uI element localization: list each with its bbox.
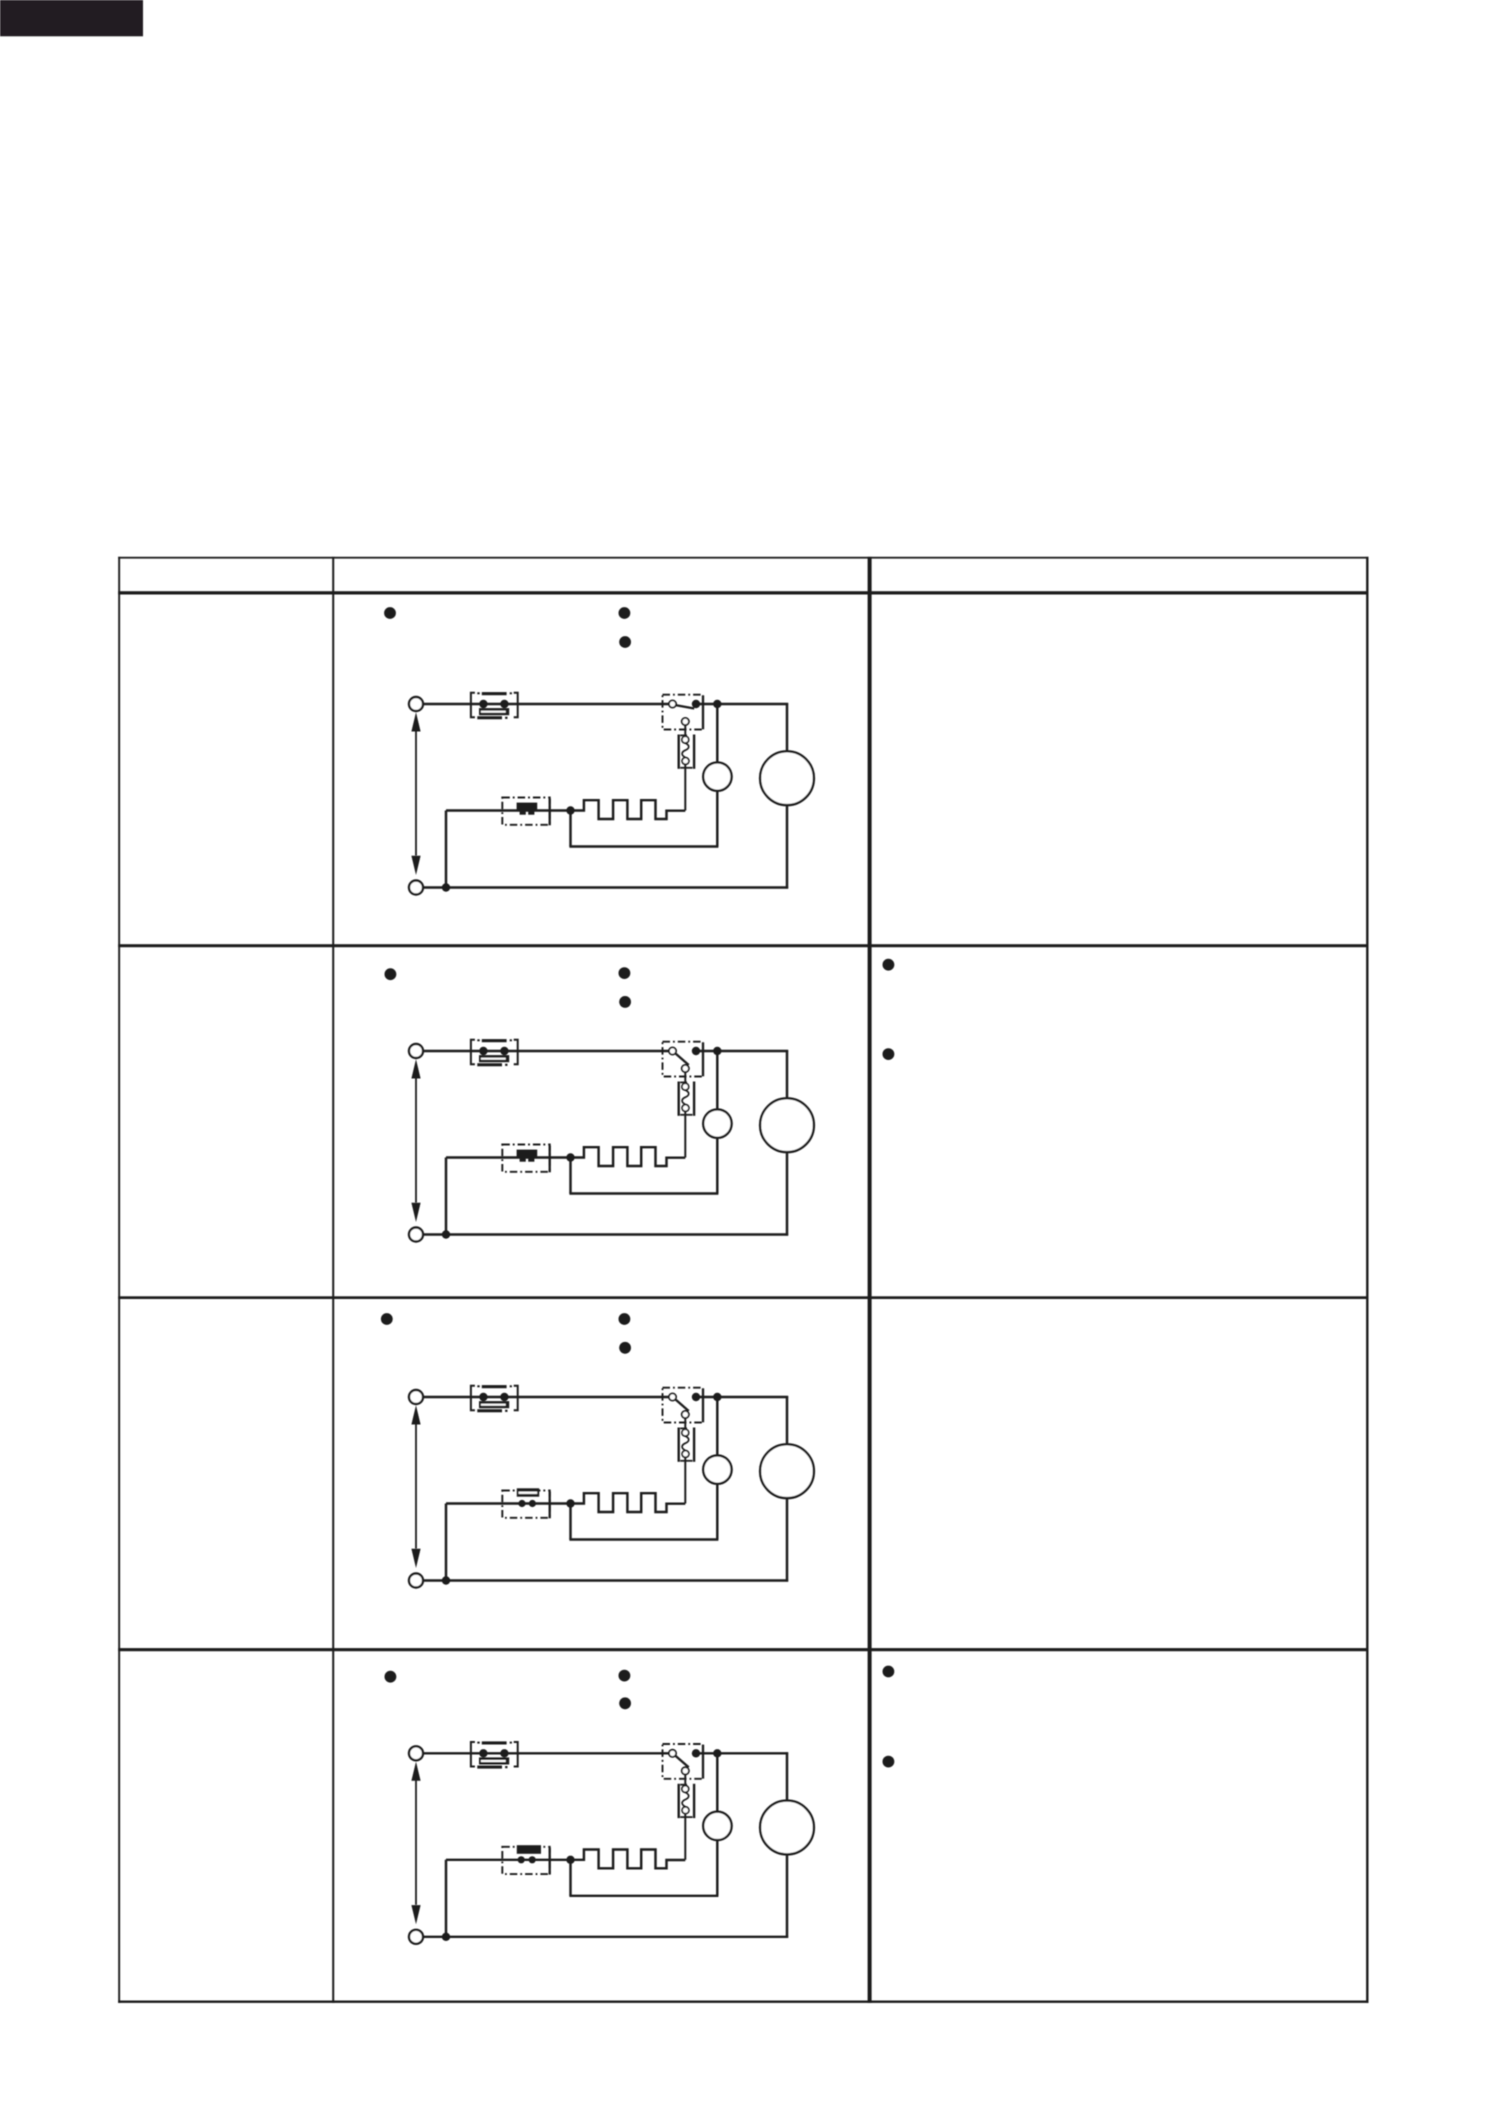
bullet marker bbox=[381, 1313, 393, 1325]
junction on bottom conductor (circuit 2) bbox=[442, 1230, 450, 1238]
start device / capacitor circle (circuit 3) bbox=[703, 1455, 731, 1483]
wire: winding up to overload protector (circuit 1) bbox=[684, 765, 686, 811]
wire: bottom conductor to L2 (circuit 2) bbox=[423, 1233, 788, 1235]
table column divider 2 (thick) bbox=[868, 557, 872, 2003]
bullet marker bbox=[619, 1697, 631, 1709]
bullet marker bbox=[619, 967, 631, 979]
wire: top conductor from relay to right corner (circuit 3) bbox=[700, 1396, 789, 1398]
PTC starter housing (dash-dot) (circuit 2) bbox=[502, 1145, 549, 1172]
start winding resistance element (square-wave) (circuit 4) bbox=[571, 1850, 686, 1869]
relay blade in run position (circuit 1) bbox=[676, 705, 694, 708]
bullet marker bbox=[883, 1666, 895, 1678]
table row divider 3 bbox=[118, 1648, 1368, 1651]
junction node at start-winding split (circuit 2) bbox=[566, 1153, 574, 1161]
compressor motor M (circuit 3) bbox=[760, 1444, 814, 1498]
wire: winding up to overload protector (circuit 2) bbox=[684, 1112, 686, 1158]
wire: bypass under winding to start device (circuit 4) bbox=[569, 1840, 718, 1896]
wire: winding up to overload protector (circuit 4) bbox=[684, 1814, 686, 1860]
PTC starter housing (dash-dot) (circuit 4) bbox=[502, 1847, 549, 1874]
wire: top conductor from relay to right corner (circuit 1) bbox=[700, 703, 789, 705]
junction on top conductor above start device (circuit 4) bbox=[713, 1749, 721, 1757]
node L2 supply terminal (circuit 4) bbox=[409, 1930, 423, 1944]
thermostat contact bridge (circuit 1) bbox=[479, 708, 509, 715]
wire: starter branch into PTC starter (circuit 2) bbox=[446, 1156, 571, 1158]
relay common contact (circuit 3) bbox=[669, 1393, 676, 1400]
PTC starter contacts closed: bridge on contact dots (circuit 1) bbox=[517, 803, 538, 815]
junction on top conductor above start device (circuit 3) bbox=[713, 1393, 721, 1401]
wire: left riser of starter branch (circuit 3) bbox=[445, 1504, 447, 1581]
wire: motor to bottom conductor (circuit 2) bbox=[786, 1152, 788, 1236]
thermostat contact dots (circuit 1) bbox=[479, 700, 508, 708]
relay blade in start position (circuit 3) bbox=[675, 1399, 688, 1411]
relay start contact (circuit 3) bbox=[682, 1411, 689, 1418]
wire: top conductor from L1 to starting relay (circuit 2) bbox=[423, 1050, 669, 1052]
starting relay housing (dash-dot) (circuit 2) bbox=[663, 1042, 704, 1077]
node L1 supply terminal (circuit 2) bbox=[409, 1044, 423, 1058]
wire: start device up to top conductor (circuit 3) bbox=[716, 1397, 718, 1456]
wire: right drop to motor (circuit 2) bbox=[786, 1050, 788, 1099]
table column divider 1 bbox=[332, 557, 334, 2003]
wire: relay start contact to overload protector (circuit 2) bbox=[684, 1072, 686, 1083]
bullet marker bbox=[619, 1313, 631, 1325]
table header bottom rule (thick) bbox=[118, 591, 1368, 594]
wire: top conductor from L1 to starting relay (circuit 1) bbox=[423, 703, 669, 705]
wire: left riser of starter branch (circuit 1) bbox=[445, 811, 447, 888]
PTC starter contacts closed: bridge on contact dots (circuit 2) bbox=[517, 1150, 538, 1162]
wire: motor to bottom conductor (circuit 1) bbox=[786, 805, 788, 889]
wire: bottom conductor to L2 (circuit 4) bbox=[423, 1936, 788, 1938]
node L2 supply terminal (circuit 1) bbox=[409, 881, 423, 895]
page header black tab bbox=[0, 0, 143, 36]
starting relay housing (dash-dot) (circuit 1) bbox=[663, 695, 704, 730]
PTC starter contacts open: lifted solid bridge bar over contact dots (circuit 4) bbox=[517, 1845, 541, 1863]
start device / capacitor circle (circuit 4) bbox=[703, 1812, 731, 1840]
node L1 supply terminal (circuit 4) bbox=[409, 1746, 423, 1760]
table outer bottom border bbox=[118, 2001, 1368, 2003]
thermostat contact bridge (circuit 4) bbox=[479, 1757, 509, 1764]
wire: motor to bottom conductor (circuit 4) bbox=[786, 1854, 788, 1938]
wire: bypass under winding to start device (circuit 3) bbox=[569, 1483, 718, 1539]
node L1 supply terminal (circuit 3) bbox=[409, 1390, 423, 1404]
table outer right border bbox=[1366, 557, 1368, 2003]
node L2 supply terminal (circuit 2) bbox=[409, 1228, 423, 1242]
thermostat cutout housing brackets (circuit 3) bbox=[471, 1385, 518, 1412]
wire: bottom conductor to L2 (circuit 3) bbox=[423, 1579, 788, 1581]
thermostat cutout housing brackets (circuit 1) bbox=[471, 692, 518, 719]
relay start contact (circuit 4) bbox=[682, 1767, 689, 1774]
wire: left riser of starter branch (circuit 2) bbox=[445, 1158, 447, 1235]
bullet marker bbox=[619, 996, 631, 1008]
supply voltage double arrow (circuit 2) bbox=[411, 1059, 420, 1222]
wire: start device up to top conductor (circuit 1) bbox=[716, 704, 718, 763]
start winding resistance element (square-wave) (circuit 1) bbox=[571, 800, 686, 819]
compressor motor M (circuit 4) bbox=[760, 1801, 814, 1855]
compressor motor M (circuit 1) bbox=[760, 751, 814, 805]
bullet marker bbox=[384, 607, 396, 619]
wire: relay start contact to overload protector (circuit 3) bbox=[684, 1418, 686, 1429]
relay blade in start position (circuit 4) bbox=[675, 1756, 688, 1768]
overload protector OL (circuit 4) bbox=[678, 1784, 696, 1818]
junction node at start-winding split (circuit 4) bbox=[566, 1856, 574, 1864]
thermostat contact dots (circuit 2) bbox=[479, 1047, 508, 1055]
relay run contact dot (circuit 4) bbox=[692, 1749, 700, 1757]
wire: left riser of starter branch (circuit 4) bbox=[445, 1860, 447, 1937]
wire: top conductor from relay to right corner (circuit 2) bbox=[700, 1050, 789, 1052]
relay run contact dot (circuit 1) bbox=[692, 700, 700, 708]
PTC starter housing (dash-dot) (circuit 1) bbox=[502, 798, 549, 825]
junction node at start-winding split (circuit 3) bbox=[566, 1499, 574, 1507]
relay common contact (circuit 1) bbox=[669, 700, 676, 707]
bullet marker bbox=[619, 1342, 631, 1354]
junction on bottom conductor (circuit 4) bbox=[442, 1933, 450, 1941]
supply voltage double arrow (circuit 1) bbox=[411, 712, 420, 875]
relay blade in start position (circuit 2) bbox=[675, 1053, 688, 1065]
relay start contact (circuit 2) bbox=[682, 1065, 689, 1072]
wire: winding up to overload protector (circuit 3) bbox=[684, 1458, 686, 1504]
wire: start device up to top conductor (circuit 4) bbox=[716, 1753, 718, 1812]
relay common contact (circuit 2) bbox=[669, 1047, 676, 1054]
node L2 supply terminal (circuit 3) bbox=[409, 1574, 423, 1588]
overload protector OL (circuit 3) bbox=[678, 1428, 696, 1462]
thermostat contact dots (circuit 3) bbox=[479, 1393, 508, 1401]
supply voltage double arrow (circuit 4) bbox=[411, 1762, 420, 1925]
PTC starter contacts open: lifted bridge bar over contact dots (circuit 3) bbox=[517, 1488, 539, 1507]
wire: start device up to top conductor (circuit 2) bbox=[716, 1051, 718, 1110]
junction on bottom conductor (circuit 1) bbox=[442, 883, 450, 891]
wire: top conductor from L1 to starting relay (circuit 4) bbox=[423, 1752, 669, 1754]
thermostat contact bridge (circuit 3) bbox=[479, 1401, 509, 1408]
bullet marker bbox=[883, 1048, 895, 1060]
wire: starter branch into PTC starter (circuit 3) bbox=[446, 1502, 571, 1504]
junction on bottom conductor (circuit 3) bbox=[442, 1576, 450, 1584]
wire: bypass under winding to start device (circuit 1) bbox=[569, 790, 718, 846]
start winding resistance element (square-wave) (circuit 2) bbox=[571, 1147, 686, 1166]
wire: right drop to motor (circuit 1) bbox=[786, 703, 788, 752]
table row divider 1 bbox=[118, 944, 1368, 947]
thermostat contact dots (circuit 4) bbox=[479, 1749, 508, 1757]
starting relay housing (dash-dot) (circuit 3) bbox=[663, 1388, 704, 1423]
supply voltage double arrow (circuit 3) bbox=[411, 1405, 420, 1568]
bullet marker bbox=[385, 968, 397, 980]
table outer left border bbox=[118, 557, 120, 2003]
junction on top conductor above start device (circuit 1) bbox=[713, 700, 721, 708]
node L1 supply terminal (circuit 1) bbox=[409, 697, 423, 711]
overload protector OL (circuit 1) bbox=[678, 735, 696, 769]
relay run contact dot (circuit 3) bbox=[692, 1393, 700, 1401]
thermostat cutout housing brackets (circuit 4) bbox=[471, 1741, 518, 1768]
junction node at start-winding split (circuit 1) bbox=[566, 806, 574, 814]
wire: relay start contact to overload protector (circuit 4) bbox=[684, 1775, 686, 1786]
junction on top conductor above start device (circuit 2) bbox=[713, 1047, 721, 1055]
relay start contact (circuit 1) bbox=[682, 718, 689, 725]
PTC starter housing (dash-dot) (circuit 3) bbox=[502, 1491, 549, 1518]
start device / capacitor circle (circuit 1) bbox=[703, 762, 731, 790]
wire: starter branch into PTC starter (circuit 1) bbox=[446, 809, 571, 811]
wire: bottom conductor to L2 (circuit 1) bbox=[423, 886, 788, 888]
wire: right drop to motor (circuit 4) bbox=[786, 1752, 788, 1801]
overload protector OL (circuit 2) bbox=[678, 1082, 696, 1116]
wire: motor to bottom conductor (circuit 3) bbox=[786, 1498, 788, 1582]
table row divider 2 bbox=[118, 1296, 1368, 1299]
table outer top border bbox=[118, 557, 1368, 559]
compressor motor M (circuit 2) bbox=[760, 1098, 814, 1152]
wire: right drop to motor (circuit 3) bbox=[786, 1396, 788, 1445]
wire: relay start contact to overload protector (circuit 1) bbox=[684, 725, 686, 736]
bullet marker bbox=[619, 1670, 631, 1682]
start winding resistance element (square-wave) (circuit 3) bbox=[571, 1493, 686, 1512]
wire: top conductor from relay to right corner (circuit 4) bbox=[700, 1752, 789, 1754]
thermostat contact bridge (circuit 2) bbox=[479, 1055, 509, 1062]
bullet marker bbox=[619, 636, 631, 648]
bullet marker bbox=[883, 959, 895, 971]
wire: starter branch into PTC starter (circuit 4) bbox=[446, 1859, 571, 1861]
start device / capacitor circle (circuit 2) bbox=[703, 1109, 731, 1137]
bullet marker bbox=[385, 1671, 397, 1683]
wire: top conductor from L1 to starting relay (circuit 3) bbox=[423, 1396, 669, 1398]
thermostat cutout housing brackets (circuit 2) bbox=[471, 1039, 518, 1066]
bullet marker bbox=[883, 1756, 895, 1768]
starting relay housing (dash-dot) (circuit 4) bbox=[663, 1744, 704, 1779]
bullet marker bbox=[619, 607, 631, 619]
relay run contact dot (circuit 2) bbox=[692, 1047, 700, 1055]
wire: bypass under winding to start device (circuit 2) bbox=[569, 1137, 718, 1193]
relay common contact (circuit 4) bbox=[669, 1750, 676, 1757]
